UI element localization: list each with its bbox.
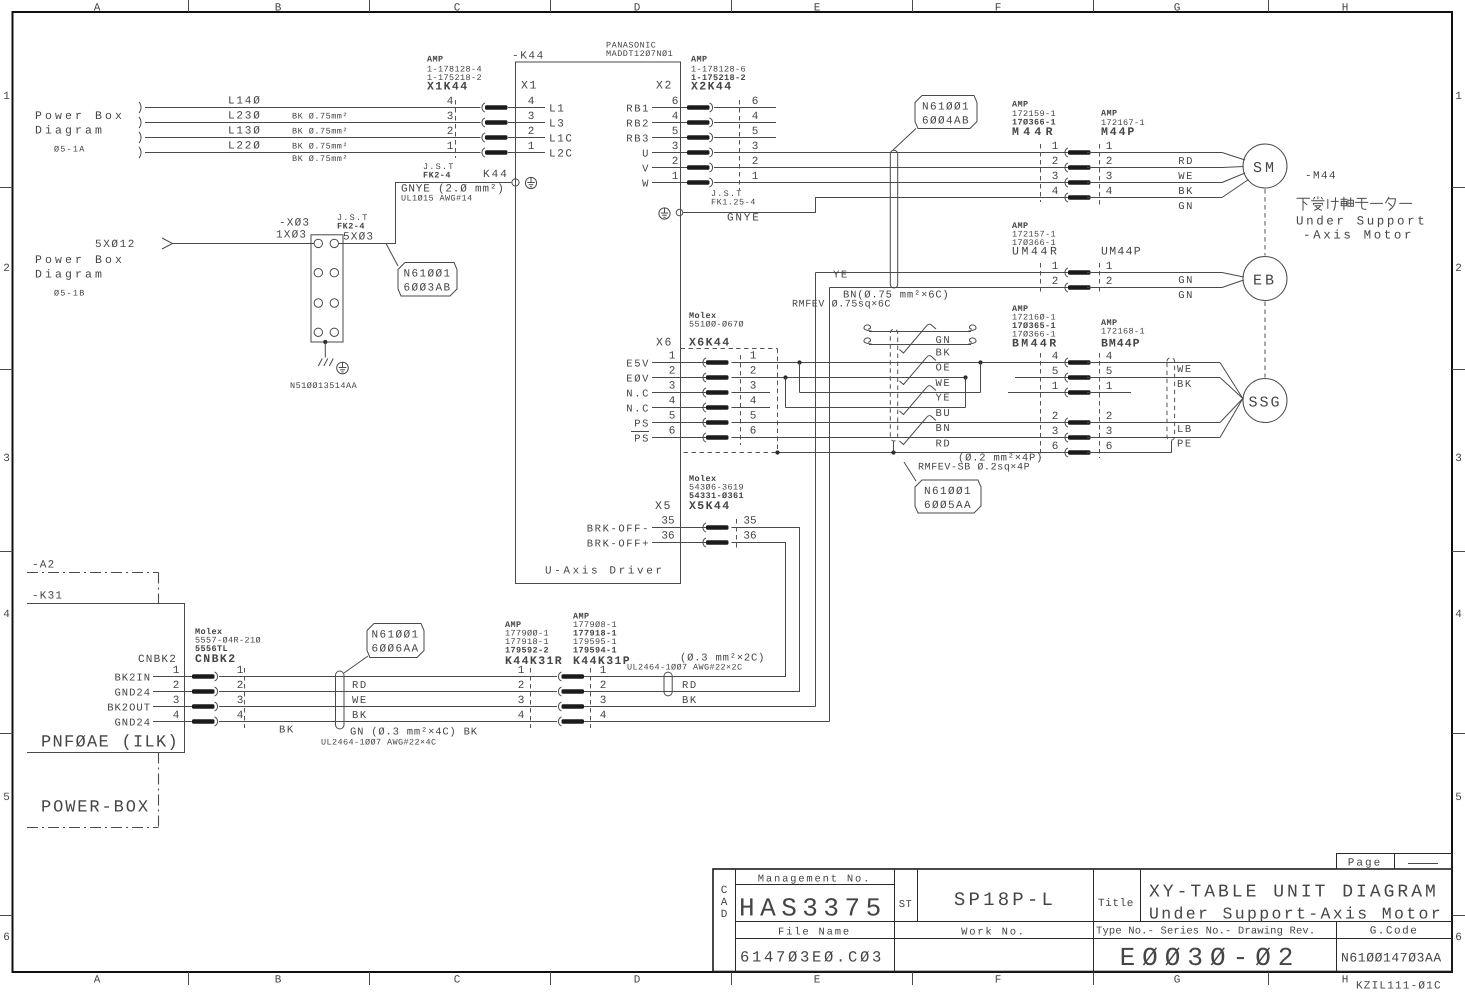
svg-text:3: 3: [518, 695, 525, 707]
label -M44: [1305, 171, 1337, 183]
svg-text:X2K44: X2K44: [691, 81, 733, 94]
svg-text:6: 6: [1052, 441, 1059, 453]
svg-text:BK Ø.75mm²: BK Ø.75mm²: [292, 127, 348, 137]
connector UM44R UM44P: [1012, 221, 1142, 292]
cable core labels RD WE BK: [279, 680, 478, 748]
svg-text:A: A: [721, 897, 728, 909]
svg-text:RD: RD: [936, 439, 952, 451]
svg-text:6: 6: [750, 426, 757, 438]
svg-text:KZIL111-Ø1C: KZIL111-Ø1C: [1356, 981, 1442, 992]
svg-text:5: 5: [752, 126, 759, 138]
svg-text:Power Box: Power Box: [35, 254, 125, 267]
svg-text:1: 1: [1106, 381, 1113, 393]
svg-text:L3: L3: [549, 119, 565, 131]
svg-text:BK: BK: [1177, 379, 1193, 391]
svg-text:4: 4: [518, 710, 525, 722]
svg-text:FK2-4: FK2-4: [337, 222, 365, 232]
svg-text:-A2: -A2: [32, 560, 55, 572]
svg-text:LB: LB: [1177, 424, 1193, 436]
svg-text:Ø5-1B: Ø5-1B: [54, 289, 86, 299]
svg-text:X6K44: X6K44: [689, 337, 731, 350]
svg-text:4: 4: [237, 710, 244, 722]
svg-text:1: 1: [1052, 141, 1059, 153]
svg-text:551ØØ-Ø67Ø: 551ØØ-Ø67Ø: [689, 320, 744, 330]
svg-text:6: 6: [3, 932, 10, 944]
balloon N61001 6004AB: [893, 96, 977, 151]
svg-text:CNBK2: CNBK2: [195, 653, 237, 666]
svg-text:4: 4: [3, 609, 10, 621]
svg-text:X2: X2: [656, 80, 673, 93]
svg-text:GND24: GND24: [114, 718, 151, 730]
svg-text:EB: EB: [1253, 273, 1277, 290]
svg-text:1: 1: [173, 665, 180, 677]
note under support axis motor (english): [1296, 215, 1427, 243]
svg-text:OE: OE: [936, 363, 952, 375]
svg-text:6ØØ3AB: 6ØØ3AB: [403, 283, 451, 295]
twisted pair marks: [900, 324, 937, 444]
svg-text:L23Ø: L23Ø: [228, 111, 262, 123]
svg-text:35: 35: [661, 516, 674, 528]
svg-text:2: 2: [528, 126, 535, 138]
title block page cell: [1337, 854, 1453, 870]
svg-text:6: 6: [672, 96, 679, 108]
svg-text:H: H: [1342, 3, 1349, 15]
svg-text:RD: RD: [352, 680, 368, 692]
svg-text:RB1: RB1: [626, 104, 650, 116]
svg-text:Diagram: Diagram: [35, 125, 105, 138]
wire GNYE 2.0mm from X03 to K44: [339, 183, 512, 244]
title block: [713, 869, 1452, 972]
connector X6K44: [626, 311, 756, 446]
svg-text:3: 3: [447, 111, 454, 123]
svg-text:5XØ3: 5XØ3: [343, 232, 374, 244]
wire 5X012 from power box: [95, 238, 314, 251]
svg-text:2: 2: [750, 366, 757, 378]
svg-text:2: 2: [518, 680, 525, 692]
svg-text:N61ØØ1: N61ØØ1: [403, 269, 451, 281]
connector BM44R BM44P: [1012, 304, 1145, 458]
svg-text:Power Box: Power Box: [35, 110, 125, 123]
svg-text:BK: BK: [936, 348, 952, 360]
svg-text:PE: PE: [1177, 439, 1193, 451]
svg-text:1: 1: [1106, 261, 1113, 273]
wire BRK-OFF- to K44K31P pin2: [582, 528, 800, 692]
svg-text:5XØ12: 5XØ12: [95, 239, 136, 251]
svg-text:BRK-OFF+: BRK-OFF+: [587, 539, 650, 551]
note power box diagram 05-1A: [35, 110, 125, 155]
svg-text:4: 4: [173, 710, 180, 722]
svg-text:Diagram: Diagram: [35, 269, 105, 282]
svg-text:1: 1: [672, 171, 679, 183]
cable shield oval motor cable: [890, 150, 897, 288]
svg-text:3: 3: [669, 381, 676, 393]
svg-text:L14Ø: L14Ø: [228, 96, 262, 108]
svg-text:1: 1: [669, 351, 676, 363]
svg-text:G: G: [1174, 3, 1181, 15]
svg-text:K44: K44: [483, 169, 509, 181]
svg-text:L22Ø: L22Ø: [228, 141, 262, 153]
note under support axis motor (japanese): [1297, 197, 1412, 210]
wire brake BN riser to UM44R pin2: [582, 288, 830, 722]
svg-text:BK Ø.75mm²: BK Ø.75mm²: [292, 154, 348, 164]
svg-text:5: 5: [672, 126, 679, 138]
balloon N61001 6003AB: [386, 244, 457, 297]
svg-text:C: C: [454, 975, 461, 987]
svg-text:C: C: [721, 885, 728, 897]
svg-text:2: 2: [669, 366, 676, 378]
svg-text:6: 6: [1455, 932, 1462, 944]
svg-text:UM44R: UM44R: [1012, 246, 1060, 259]
note 0.2mm 4P: [918, 453, 1043, 474]
svg-text:-XØ3: -XØ3: [279, 218, 310, 230]
cable oval 2C: [664, 672, 672, 696]
svg-text:6ØØ4AB: 6ØØ4AB: [922, 116, 970, 128]
svg-text:SP18P-L: SP18P-L: [954, 889, 1056, 911]
svg-text:6ØØ5AA: 6ØØ5AA: [924, 500, 972, 512]
wire RB1 RB2 RB3 stubs: [714, 108, 776, 138]
svg-text:F: F: [995, 975, 1002, 987]
svg-text:N51ØØ13514AA: N51ØØ13514AA: [290, 381, 358, 391]
svg-text:UM44P: UM44P: [1101, 246, 1142, 259]
svg-text:1XØ3: 1XØ3: [276, 230, 307, 242]
svg-text:BK: BK: [1178, 186, 1194, 198]
svg-text:Type No.- Series No.- Drawing: Type No.- Series No.- Drawing Rev.: [1096, 926, 1315, 938]
svg-text:BK2IN: BK2IN: [114, 673, 151, 685]
svg-text:L13Ø: L13Ø: [228, 126, 262, 138]
svg-text:U-Axis Driver: U-Axis Driver: [545, 566, 665, 578]
svg-text:BK Ø.75mm²: BK Ø.75mm²: [292, 112, 348, 122]
connector X1K44: [427, 55, 574, 161]
interlock box -K31 PNF0AE: [27, 591, 185, 753]
ground symbol at X2: [659, 208, 683, 219]
wire BN brake -: [792, 288, 1068, 311]
svg-text:3: 3: [672, 141, 679, 153]
svg-text:179594-1: 179594-1: [573, 646, 617, 656]
svg-text:WE: WE: [1177, 364, 1193, 376]
svg-text:RMFEV Ø.75sq×6C: RMFEV Ø.75sq×6C: [792, 300, 891, 311]
svg-text:4: 4: [1106, 186, 1113, 198]
svg-text:Under Support-Axis Motor: Under Support-Axis Motor: [1149, 905, 1443, 924]
svg-text:K44K31R: K44K31R: [505, 655, 563, 668]
svg-text:YE: YE: [833, 270, 849, 282]
svg-text:1: 1: [518, 665, 525, 677]
svg-text:F: F: [995, 3, 1002, 15]
svg-text:3: 3: [1052, 426, 1059, 438]
svg-text:2: 2: [1106, 411, 1113, 423]
svg-text:36: 36: [743, 531, 756, 543]
svg-text:3: 3: [237, 695, 244, 707]
svg-text:Page: Page: [1348, 858, 1382, 870]
svg-text:BK Ø.75mm²: BK Ø.75mm²: [292, 142, 348, 152]
svg-text:6: 6: [752, 96, 759, 108]
wire U V W to M44R: [714, 153, 1068, 183]
svg-text:GN: GN: [1178, 201, 1194, 213]
svg-text:H: H: [1342, 975, 1349, 987]
svg-text:3: 3: [1455, 453, 1462, 465]
wire brake YE riser to UM44R pin1: [582, 273, 816, 707]
svg-text:4: 4: [1455, 609, 1462, 621]
svg-text:2: 2: [1106, 156, 1113, 168]
svg-text:5: 5: [750, 411, 757, 423]
svg-text:2: 2: [1052, 156, 1059, 168]
svg-text:RB3: RB3: [626, 134, 650, 146]
svg-text:WE: WE: [936, 378, 952, 390]
svg-text:1: 1: [528, 141, 535, 153]
svg-text:PNFØAE (ILK): PNFØAE (ILK): [41, 734, 179, 753]
svg-text:SM: SM: [1253, 160, 1277, 177]
wire YE loop segment: [786, 378, 966, 408]
svg-text:1: 1: [447, 141, 454, 153]
svg-text:1: 1: [750, 351, 757, 363]
svg-text:GN: GN: [936, 335, 952, 347]
svg-text:D: D: [721, 909, 728, 921]
svg-text:2: 2: [1455, 263, 1462, 275]
svg-text:E5V: E5V: [626, 359, 650, 371]
svg-text:E: E: [814, 975, 821, 987]
svg-text:M44P: M44P: [1101, 126, 1136, 139]
svg-text:1: 1: [1052, 261, 1059, 273]
svg-text:179592-2: 179592-2: [505, 646, 549, 656]
svg-text:X1: X1: [521, 80, 538, 93]
svg-text:5: 5: [1455, 792, 1462, 804]
svg-text:2: 2: [447, 126, 454, 138]
svg-text:UL2464-1ØØ7 AWG#22×2C: UL2464-1ØØ7 AWG#22×2C: [627, 663, 743, 673]
motor SM: [1243, 144, 1287, 188]
svg-text:EØØ3Ø-Ø2: EØØ3Ø-Ø2: [1120, 943, 1301, 973]
svg-text:N61ØØ147Ø3AA: N61ØØ147Ø3AA: [1341, 951, 1442, 966]
sheet code KZIL111-01C: [1356, 981, 1442, 992]
ground terminal K44 on driver box: [423, 162, 537, 189]
title block texts: [721, 874, 1443, 974]
svg-text:A: A: [94, 975, 101, 987]
wire shield drain RD to BM44 pin6: [775, 441, 1068, 455]
svg-text:WE: WE: [352, 695, 368, 707]
svg-text:L1: L1: [549, 104, 565, 116]
svg-text:3: 3: [528, 111, 535, 123]
svg-text:5: 5: [3, 792, 10, 804]
connector CNBK2: [107, 627, 261, 730]
svg-text:HAS3375: HAS3375: [739, 894, 887, 924]
svg-text:A: A: [94, 3, 101, 15]
svg-text:6: 6: [1106, 441, 1113, 453]
svg-text:GN: GN: [1178, 290, 1194, 302]
svg-text:2: 2: [3, 263, 10, 275]
svg-text:1: 1: [237, 665, 244, 677]
cable oval 4C: [336, 671, 345, 729]
svg-text:UL2464-1ØØ7 AWG#22×4C: UL2464-1ØØ7 AWG#22×4C: [321, 738, 437, 748]
svg-text:C: C: [454, 3, 461, 15]
balloon N61001 6005AA: [904, 462, 981, 513]
wire L140 L230 L130 L220 from power box: [139, 96, 481, 165]
wire E0V / OE to BM44 pin5: [732, 375, 1069, 379]
svg-text:6: 6: [669, 426, 676, 438]
svg-text:BU: BU: [936, 408, 952, 420]
svg-text:3: 3: [173, 695, 180, 707]
wire YE brake +: [816, 270, 1069, 282]
svg-text:N.C: N.C: [626, 404, 650, 416]
svg-text:Work No.: Work No.: [961, 927, 1026, 939]
svg-text:4: 4: [1106, 351, 1113, 363]
cable core labels GN BK OE WE YE BU BN RD: [936, 335, 952, 450]
svg-text:2: 2: [237, 680, 244, 692]
svg-text:G.Code: G.Code: [1370, 926, 1419, 938]
svg-text:GN: GN: [1178, 275, 1194, 287]
svg-text:3: 3: [1052, 171, 1059, 183]
svg-text:MADDT12Ø7NØ1: MADDT12Ø7NØ1: [606, 49, 673, 59]
svg-text:BRK-OFF-: BRK-OFF-: [587, 524, 650, 536]
wire PS-bar / BN to BM44 pin3: [732, 437, 1069, 439]
svg-text:2: 2: [600, 680, 607, 692]
connector M44R M44P: [1012, 100, 1145, 208]
svg-text:4: 4: [752, 111, 759, 123]
svg-text:Title: Title: [1098, 898, 1134, 910]
dashed link SM EB SSG: [1264, 189, 1266, 378]
svg-text:-M44: -M44: [1305, 171, 1337, 183]
svg-text:BM44P: BM44P: [1101, 338, 1141, 351]
svg-text:4: 4: [1052, 186, 1059, 198]
svg-text:BK: BK: [279, 725, 295, 737]
svg-text:U: U: [642, 149, 650, 161]
cable labels 0.3mm 2C: [627, 653, 765, 708]
svg-text:172168-1: 172168-1: [1101, 327, 1145, 337]
wire N.C pin3 stub: [732, 392, 771, 394]
brake EB: [1243, 257, 1287, 301]
svg-text:RD: RD: [1178, 156, 1194, 168]
svg-text:AMP: AMP: [1101, 109, 1118, 119]
cable shield oval encoder (dashed): [890, 329, 897, 441]
svg-text:L2C: L2C: [549, 149, 574, 161]
svg-text:3: 3: [3, 453, 10, 465]
svg-text:1: 1: [1052, 381, 1059, 393]
svg-text:WE: WE: [1178, 171, 1194, 183]
wire WE BK LB PE to SSG: [1087, 363, 1243, 453]
svg-text:N61ØØ1: N61ØØ1: [924, 486, 972, 498]
svg-text:BK2OUT: BK2OUT: [107, 703, 151, 715]
svg-text:PS: PS: [634, 434, 650, 446]
svg-text:GND24: GND24: [114, 688, 151, 700]
svg-text:4: 4: [600, 710, 607, 722]
wire BRK-OFF+ to K44K31P pin1: [582, 543, 786, 677]
wire CNBK2 to K44K31R rows: [219, 677, 557, 722]
connector X5K44: [587, 474, 757, 551]
svg-text:G: G: [1174, 975, 1181, 987]
svg-text:AMP: AMP: [427, 55, 444, 65]
svg-text:FK2-4: FK2-4: [423, 171, 451, 181]
svg-text:N61ØØ1: N61ØØ1: [922, 102, 970, 114]
svg-text:X5K44: X5K44: [689, 500, 731, 513]
svg-text:AMP: AMP: [1012, 100, 1029, 110]
svg-text:N61ØØ1: N61ØØ1: [371, 630, 419, 642]
svg-text:AMP: AMP: [691, 55, 708, 65]
note power box diagram 05-1B: [35, 254, 125, 299]
svg-text:W: W: [642, 179, 650, 191]
svg-text:1: 1: [1455, 91, 1462, 103]
svg-text:4: 4: [750, 396, 757, 408]
svg-text:XY-TABLE UNIT DIAGRAM: XY-TABLE UNIT DIAGRAM: [1149, 883, 1439, 903]
svg-text:Management No.: Management No.: [758, 874, 871, 886]
svg-text:BK: BK: [352, 710, 368, 722]
svg-text:4: 4: [447, 96, 454, 108]
svg-text:2: 2: [1052, 276, 1059, 288]
svg-text:D: D: [634, 3, 641, 15]
svg-text:-K31: -K31: [32, 591, 63, 603]
svg-text:Under Support: Under Support: [1296, 215, 1427, 229]
power box dash-dot boundary -A2: [27, 560, 159, 828]
svg-text:BN: BN: [936, 423, 952, 435]
wire GNYE from X2 ground to M44R pin4: [683, 198, 1068, 225]
svg-text:FK1.25-4: FK1.25-4: [711, 198, 756, 208]
cut wire pair GN: [864, 325, 976, 345]
svg-text:B: B: [275, 975, 282, 987]
wire RD WE BK GN to SM motor: [1087, 153, 1249, 214]
svg-text:5: 5: [1052, 366, 1059, 378]
connector X2K44: [626, 55, 758, 208]
svg-text:2: 2: [173, 680, 180, 692]
svg-text:1: 1: [3, 91, 10, 103]
svg-text:-Axis Motor: -Axis Motor: [1303, 229, 1414, 243]
wire E5V / BK to BM44 pin4: [732, 360, 1069, 364]
svg-text:X5: X5: [655, 500, 672, 513]
svg-text:5: 5: [669, 411, 676, 423]
svg-text:B: B: [275, 3, 282, 15]
svg-text:2: 2: [752, 156, 759, 168]
svg-text:SSG: SSG: [1248, 395, 1281, 412]
svg-text:1: 1: [600, 665, 607, 677]
svg-text:35: 35: [743, 516, 756, 528]
cable shield oval at BM44P (dashed): [1167, 358, 1175, 441]
svg-text:4: 4: [672, 111, 679, 123]
svg-text:D: D: [634, 975, 641, 987]
svg-text:L1C: L1C: [549, 134, 574, 146]
encoder SSG: [1243, 379, 1287, 423]
svg-text:RB2: RB2: [626, 119, 650, 131]
svg-text:PS: PS: [634, 419, 650, 431]
svg-text:3: 3: [752, 141, 759, 153]
svg-text:4: 4: [669, 396, 676, 408]
svg-text:UL1Ø15 AWG#14: UL1Ø15 AWG#14: [401, 194, 473, 204]
svg-text:2: 2: [1052, 411, 1059, 423]
svg-text:RD: RD: [682, 680, 698, 692]
ground N510013514AA below X03: [290, 340, 358, 391]
U-axis driver box -K44: [512, 41, 681, 584]
svg-text:1: 1: [752, 171, 759, 183]
svg-text:GNYE: GNYE: [727, 213, 761, 225]
svg-text:5: 5: [1106, 366, 1113, 378]
svg-text:File Name: File Name: [778, 927, 851, 939]
svg-text:V: V: [642, 164, 650, 176]
svg-text:X1K44: X1K44: [427, 81, 469, 94]
svg-text:1: 1: [1106, 141, 1113, 153]
balloon N61001 6006AA: [344, 624, 424, 674]
svg-text:4: 4: [528, 96, 535, 108]
svg-text:ST: ST: [899, 899, 912, 911]
svg-text:-K44: -K44: [512, 51, 545, 63]
wire PS / BU to BM44 pin2: [732, 422, 1069, 424]
svg-text:BM44R: BM44R: [1012, 338, 1059, 351]
wire GN GN to EB brake: [1087, 273, 1244, 303]
svg-text:2: 2: [672, 156, 679, 168]
svg-text:4: 4: [1052, 351, 1059, 363]
svg-text:CNBK2: CNBK2: [138, 654, 177, 666]
X6K44 shield dashed box: [684, 349, 778, 453]
svg-text:YE: YE: [936, 393, 952, 405]
connector K44K31R K44K31P: [505, 612, 631, 729]
svg-text:X6: X6: [656, 337, 673, 350]
terminal block X03: [276, 213, 374, 342]
svg-text:BK: BK: [682, 695, 698, 707]
svg-text:N.C: N.C: [626, 389, 650, 401]
svg-text:3: 3: [600, 695, 607, 707]
